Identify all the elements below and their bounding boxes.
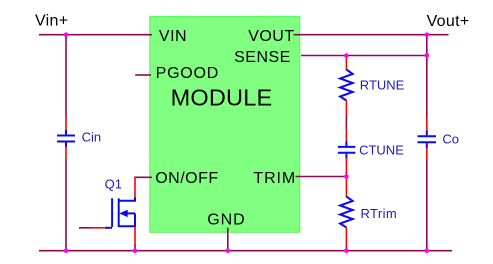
node junction rail-GND <box>226 248 231 253</box>
node junction rail-Cin <box>64 248 69 253</box>
resistor RTUNE pin lead top <box>345 56 347 71</box>
capacitor Cin pin lead top <box>65 118 67 131</box>
svg-text:Q1: Q1 <box>105 177 122 192</box>
module U1 body <box>150 16 300 232</box>
capacitor CTUNE pin lead bottom <box>345 158 347 177</box>
wire RTrim to ground rail <box>345 247 347 251</box>
node junction Vin rail <box>64 32 69 37</box>
svg-text:PGOOD: PGOOD <box>156 65 220 82</box>
resistor RTUNE symbol <box>340 70 353 101</box>
node junction TRIM <box>344 174 349 179</box>
node junction rail-Q1 <box>133 248 138 253</box>
capacitor Co symbol <box>418 131 437 148</box>
wire left vertical lower (Cin to ground rail) <box>65 159 67 251</box>
wire RTUNE to CTUNE <box>345 116 347 130</box>
capacitor Co pin lead bottom <box>426 147 428 160</box>
capacitor CTUNE symbol <box>338 141 356 158</box>
svg-text:MODULE: MODULE <box>171 85 273 111</box>
svg-text:RTrim: RTrim <box>361 206 398 221</box>
capacitor Cin pin lead bottom <box>65 147 67 160</box>
node junction rail-RTrim <box>344 248 349 253</box>
svg-text:ON/OFF: ON/OFF <box>155 170 218 187</box>
svg-text:Co: Co <box>442 132 459 147</box>
capacitor CTUNE pin lead top <box>345 130 347 142</box>
svg-text:Vout+: Vout+ <box>427 13 470 30</box>
svg-text:TRIM: TRIM <box>253 170 296 187</box>
wire Vin+ to VIN pin <box>39 34 152 36</box>
wire ON/OFF pin to Q1 drain <box>134 176 152 178</box>
capacitor Cin symbol <box>57 130 75 147</box>
node junction SENSE-Co <box>425 53 430 58</box>
wire GND pin to ground rail <box>227 228 229 251</box>
wire right vertical upper (Vout to Co) <box>426 35 428 118</box>
resistor RTrim symbol <box>340 197 353 228</box>
resistor RTrim pin lead bottom <box>345 228 347 248</box>
node junction rail-Co <box>425 248 430 253</box>
transistor Q1 source pin lead <box>134 227 136 245</box>
wire Q1 gate stub <box>79 227 91 229</box>
node junction SENSE-RTUNE <box>344 53 349 58</box>
resistor RTrim pin lead top <box>345 177 347 198</box>
transistor Q1 symbol <box>105 197 135 228</box>
svg-text:VIN: VIN <box>159 28 187 45</box>
resistor RTUNE pin lead bottom <box>345 101 347 117</box>
svg-text:SENSE: SENSE <box>234 49 291 66</box>
wire Q1 source to ground rail <box>134 245 136 251</box>
transistor Q1 drain pin lead <box>134 177 136 197</box>
wire PGOOD stub <box>135 74 151 76</box>
svg-text:VOUT: VOUT <box>248 28 294 45</box>
svg-text:GND: GND <box>207 212 245 229</box>
svg-text:CTUNE: CTUNE <box>359 143 404 158</box>
transistor Q1 gate pin lead <box>91 227 105 229</box>
wire VOUT pin to Vout+ <box>294 34 449 36</box>
svg-text:Cin: Cin <box>82 130 102 145</box>
capacitor Co pin lead top <box>426 118 428 132</box>
wire TRIM pin to junction <box>296 176 347 178</box>
wire SENSE pin to right vertical <box>301 55 427 57</box>
transistor Q1 arrow <box>119 210 128 217</box>
svg-text:RTUNE: RTUNE <box>360 78 405 93</box>
wire left vertical upper (Vin rail down to Cin) <box>65 35 67 118</box>
wire right vertical lower (Co to ground rail) <box>426 160 428 251</box>
node junction Vout rail <box>425 32 430 37</box>
svg-text:Vin+: Vin+ <box>35 13 68 30</box>
wire ground rail <box>39 250 452 252</box>
